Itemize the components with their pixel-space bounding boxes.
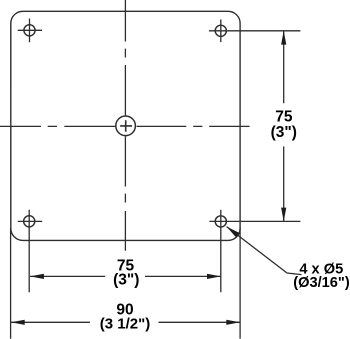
svg-text:(Ø3/16"): (Ø3/16") xyxy=(293,275,350,291)
svg-text:(3"): (3") xyxy=(113,272,139,289)
svg-text:(3 1/2"): (3 1/2") xyxy=(100,316,150,333)
svg-text:(3"): (3") xyxy=(271,124,297,141)
